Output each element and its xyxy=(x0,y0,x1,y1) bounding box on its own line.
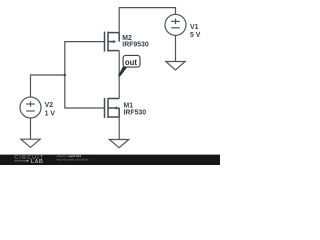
ground under M1 xyxy=(109,140,128,148)
svg-text:5 V: 5 V xyxy=(190,32,201,39)
svg-text:IRF530: IRF530 xyxy=(124,109,147,116)
ground under V2 xyxy=(21,139,40,147)
svg-text:out: out xyxy=(125,58,138,67)
voltage source V1 xyxy=(165,14,186,35)
wire drain chain M2 to M1 xyxy=(118,51,120,99)
ground under V1 xyxy=(166,62,185,70)
logo LAB row xyxy=(14,160,26,162)
M2 body arrow (points right, PMOS) xyxy=(113,40,116,43)
wire V2 branch xyxy=(31,75,65,97)
svg-text:http://circuitlab.com/c6t24v: http://circuitlab.com/c6t24v xyxy=(57,157,89,161)
watermark banner xyxy=(0,155,220,165)
transistor M2 IRF9530 symbol xyxy=(105,32,120,52)
node out flag tail xyxy=(119,65,128,76)
svg-text:M1: M1 xyxy=(124,102,134,109)
transistor M1 IRF530 symbol xyxy=(105,98,120,118)
wire M1 source to ground xyxy=(118,117,120,140)
wire top rail VDD xyxy=(119,8,175,33)
svg-text:1 V: 1 V xyxy=(45,111,56,118)
node out balloon xyxy=(123,55,140,67)
wire gate chain M2 gate to M1 gate xyxy=(65,42,105,108)
node junction dot xyxy=(64,74,67,77)
svg-text:IRF9530: IRF9530 xyxy=(122,42,149,49)
M1 body arrow (points left, NMOS) xyxy=(114,106,117,109)
wire V1 to ground xyxy=(175,35,177,61)
voltage source V2 xyxy=(20,97,41,118)
svg-text:V1: V1 xyxy=(190,24,199,31)
wire V2 to ground xyxy=(30,118,32,139)
svg-text:LAB: LAB xyxy=(31,159,43,165)
svg-text:V2: V2 xyxy=(45,102,54,109)
